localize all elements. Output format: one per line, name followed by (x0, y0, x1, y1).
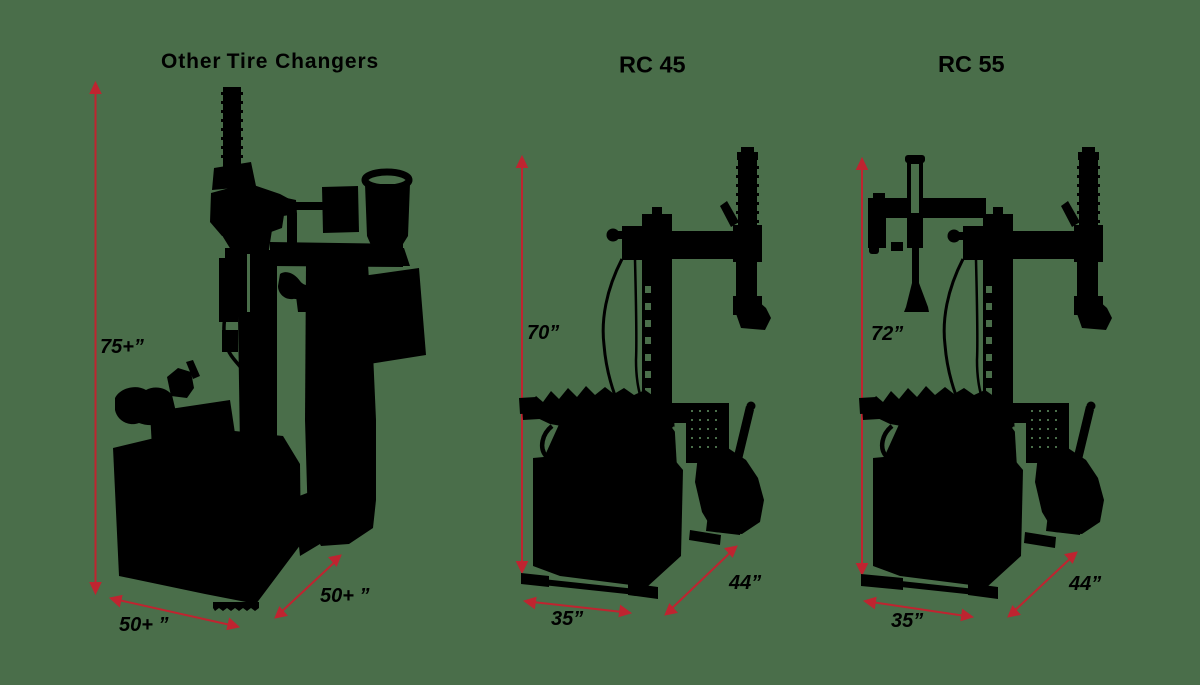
tower left block (622, 226, 649, 260)
central mast (237, 250, 277, 448)
svg-text:50+ ”: 50+ ” (320, 585, 369, 607)
arm end block (733, 225, 762, 262)
head-to-box link (294, 202, 324, 210)
svg-text:50+ ”: 50+ ” (119, 614, 168, 636)
neck taper (220, 230, 272, 258)
clamp table (526, 386, 672, 430)
svg-text:35”: 35” (551, 608, 583, 630)
arrow: 72 height (right vertical double arrow) (857, 158, 868, 575)
main base (113, 430, 301, 604)
hoses (603, 259, 622, 408)
table underbody mass (537, 417, 677, 475)
arrow: 50+ width (left bottom-left diagonal) (110, 596, 239, 630)
svg-text:RC 45: RC 45 (619, 52, 686, 78)
svg-text:72”: 72” (871, 323, 903, 345)
green sliver between body and vent box (673, 427, 688, 447)
svg-text:Other Tire Changers: Other Tire Changers (161, 50, 379, 73)
base box (533, 448, 683, 587)
pedal cluster: horn (115, 387, 176, 425)
diagonal handle (1061, 201, 1080, 227)
svg-text:75+”: 75+” (100, 336, 144, 358)
head right protrusion (282, 197, 297, 216)
cup cylinder rim (365, 172, 409, 188)
arrow: 35 width (right) (864, 598, 973, 621)
svg-text:RC 55: RC 55 (938, 51, 1005, 77)
lever (1073, 406, 1094, 464)
vented box (1026, 403, 1069, 463)
head-to-arm rod (287, 213, 297, 246)
vented box (686, 403, 729, 463)
cup cylinder body (365, 184, 410, 252)
breaker blade (706, 514, 742, 535)
bead breaker arm (695, 448, 764, 534)
side panel (362, 268, 426, 364)
left side attachments (219, 258, 238, 322)
rod collar (212, 162, 256, 190)
head assembly (210, 183, 295, 236)
breaker blade (1046, 514, 1082, 535)
horizontal arm (270, 242, 403, 267)
pedal cluster: link to base (150, 400, 236, 448)
cup lower flare (364, 248, 410, 266)
threaded rod (223, 87, 241, 167)
table underbody mass (877, 417, 1017, 475)
tower side knob (948, 230, 961, 243)
svg-text:35”: 35” (891, 610, 923, 632)
tower (983, 214, 1013, 445)
hoses (944, 259, 963, 408)
arrow: 35 width (mid) (524, 598, 631, 617)
tower-to-box bridge (670, 403, 688, 423)
helper arm post (905, 155, 925, 163)
pedal cluster: rod (186, 360, 200, 379)
clamp table (866, 386, 1012, 430)
svg-text:70”: 70” (527, 322, 559, 344)
arrow: 75+ height (left vertical double arrow) (90, 82, 101, 594)
box left of cup (322, 186, 359, 233)
tower (642, 214, 672, 445)
bead breaker arm (1035, 448, 1104, 534)
arrow: 44 depth (mid) (665, 546, 737, 615)
helper drop rod (912, 248, 919, 286)
base bar and feet (524, 577, 654, 597)
machine: Other Tire Changers silhouette (113, 87, 426, 611)
svg-text:44”: 44” (728, 572, 761, 594)
foot pad (serrated) (213, 602, 259, 611)
helper arm left block (868, 204, 886, 248)
column-base filler (294, 490, 330, 556)
svg-text:44”: 44” (1068, 573, 1101, 595)
pedal cluster: bottle (167, 368, 194, 398)
tool rod below arm (736, 259, 757, 303)
hose loop under table (542, 426, 577, 462)
tower vent slots (986, 286, 992, 395)
duck head (733, 300, 771, 330)
tower vent slots (645, 286, 651, 395)
helper arm brace (891, 242, 903, 251)
arrow: 50+ depth (left bottom-right diagonal) (275, 555, 341, 618)
helper cone (904, 283, 929, 312)
duck head (1074, 300, 1112, 330)
arrow: 70 height (mid vertical double arrow) (517, 156, 528, 573)
spring rod (1079, 157, 1098, 227)
hose loop (224, 300, 248, 380)
tool rod below arm (1077, 259, 1098, 303)
horizontal arm (988, 231, 1087, 259)
horizontal arm (647, 231, 746, 259)
wavy handle cluster (278, 272, 325, 305)
hose loop under table (882, 426, 917, 462)
green sliver between body and vent box (1013, 427, 1028, 447)
arm end block (1074, 225, 1103, 262)
lever (733, 406, 754, 464)
diagonal handle (720, 201, 739, 227)
base box (873, 448, 1023, 587)
helper arm horizontal bar (868, 198, 986, 218)
tower left block (963, 226, 990, 260)
pedal bar left (862, 405, 897, 420)
spring rod (738, 157, 757, 227)
arrow: 44 depth (right) (1008, 552, 1077, 617)
right column (305, 264, 376, 546)
machine: RC 45 silhouette (519, 147, 771, 599)
pedal bar left (522, 405, 557, 420)
machine: RC 55 silhouette (859, 147, 1112, 599)
tower-to-box bridge (1010, 403, 1028, 423)
base bar and feet (864, 577, 994, 597)
